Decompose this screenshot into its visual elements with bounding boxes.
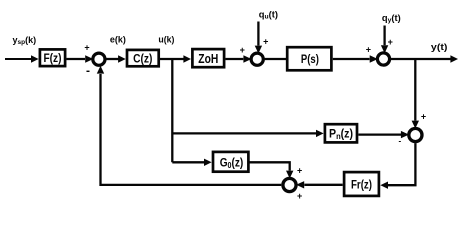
svg-text:F(z): F(z)	[44, 51, 62, 65]
block ZoH zero-order hold	[192, 49, 224, 67]
svg-text:+: +	[297, 191, 302, 201]
wire S1 to C(z)	[106, 58, 119, 60]
wire qu(t) into S2	[257, 22, 259, 46]
svg-text:e(k): e(k)	[110, 35, 126, 45]
svg-text:G0(z): G0(z)	[220, 156, 244, 171]
svg-text:P(s): P(s)	[301, 52, 319, 66]
svg-text:+: +	[84, 42, 89, 52]
wire P(s) to summing junction S3	[333, 58, 370, 60]
block P1 P(s) plant	[287, 47, 331, 70]
svg-text:+: +	[421, 112, 426, 122]
wire u branch to Pn(z)	[172, 132, 317, 134]
wire G0(z) to summing junction S5	[248, 162, 289, 170]
summing junction S1	[93, 53, 105, 65]
svg-text:+: +	[388, 37, 393, 47]
svg-text:Fr(z): Fr(z)	[351, 177, 372, 191]
summing junction S3	[377, 53, 389, 65]
wire feedback S5 to S1	[101, 74, 282, 185]
wire S4 down and left into Fr(z)	[387, 143, 415, 185]
svg-text:ZoH: ZoH	[198, 51, 218, 66]
block G0(z)	[213, 152, 248, 172]
wire ZoH to summing junction S2	[226, 58, 244, 60]
wire u branch down from node u(k)	[171, 59, 173, 162]
block Fr(z) robustness filter	[344, 172, 379, 196]
svg-text:+: +	[297, 165, 302, 175]
wire F(z) to summing junction S1	[67, 58, 86, 60]
block F1 F(z) prefilter	[40, 49, 65, 66]
block C1 C(z) controller	[127, 50, 159, 66]
svg-text:y(t): y(t)	[431, 42, 448, 52]
svg-text:-: -	[86, 63, 90, 77]
svg-text:u(k): u(k)	[158, 35, 174, 45]
svg-text:+: +	[263, 37, 268, 47]
wire Fr(z) to S5	[304, 184, 342, 186]
block Pn(z) nominal model	[325, 124, 357, 142]
wire S2 to P(s)	[265, 58, 288, 60]
svg-text:+: +	[240, 45, 245, 55]
svg-text:qy(t): qy(t)	[382, 13, 401, 24]
wire branch y(t) down to summing junction S4	[414, 59, 416, 121]
summing junction S2	[251, 53, 263, 65]
wire input to F(z)	[5, 58, 32, 60]
summing junction S4	[409, 128, 422, 141]
svg-text:+: +	[366, 44, 371, 54]
svg-text:qu(t): qu(t)	[259, 9, 278, 20]
wire C(z) to ZoH	[159, 58, 185, 60]
wire Pn(z) to S4	[358, 133, 401, 135]
wire S3 to output y(t)	[391, 58, 452, 60]
svg-text:Pn(z): Pn(z)	[329, 127, 353, 142]
wire qy(t) into S3	[383, 26, 385, 46]
svg-text:C(z): C(z)	[133, 51, 152, 65]
wire u branch to G0(z)	[172, 161, 205, 163]
svg-text:ysp(k): ysp(k)	[12, 35, 36, 46]
summing junction S5	[283, 178, 296, 191]
